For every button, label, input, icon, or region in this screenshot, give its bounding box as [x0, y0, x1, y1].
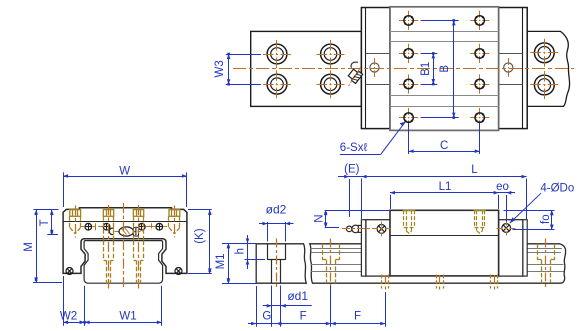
svg-text:F: F [354, 311, 361, 323]
svg-text:W1: W1 [119, 310, 136, 322]
svg-text:G: G [262, 311, 271, 323]
svg-text:B1: B1 [420, 62, 432, 76]
svg-text:ød2: ød2 [266, 203, 287, 217]
svg-text:W3: W3 [214, 60, 226, 77]
svg-text:L1: L1 [439, 181, 452, 193]
svg-text:L: L [471, 164, 478, 176]
svg-text:T: T [39, 219, 51, 226]
svg-text:(K): (K) [194, 228, 206, 244]
svg-text:h: h [235, 248, 247, 254]
svg-text:N: N [314, 214, 326, 222]
svg-text:W: W [119, 165, 130, 177]
svg-text:4-ØDo: 4-ØDo [540, 182, 574, 194]
svg-text:B: B [439, 65, 451, 73]
svg-text:C: C [440, 140, 448, 152]
svg-text:M: M [23, 242, 35, 252]
svg-text:(E): (E) [344, 163, 360, 175]
svg-text:eo: eo [496, 181, 509, 193]
svg-text:F: F [300, 311, 307, 323]
svg-text:ød1: ød1 [287, 289, 308, 303]
svg-text:fo: fo [540, 214, 552, 224]
svg-text:6-Sxℓ: 6-Sxℓ [340, 142, 368, 154]
svg-text:W2: W2 [60, 310, 77, 322]
svg-text:M1: M1 [215, 253, 227, 269]
